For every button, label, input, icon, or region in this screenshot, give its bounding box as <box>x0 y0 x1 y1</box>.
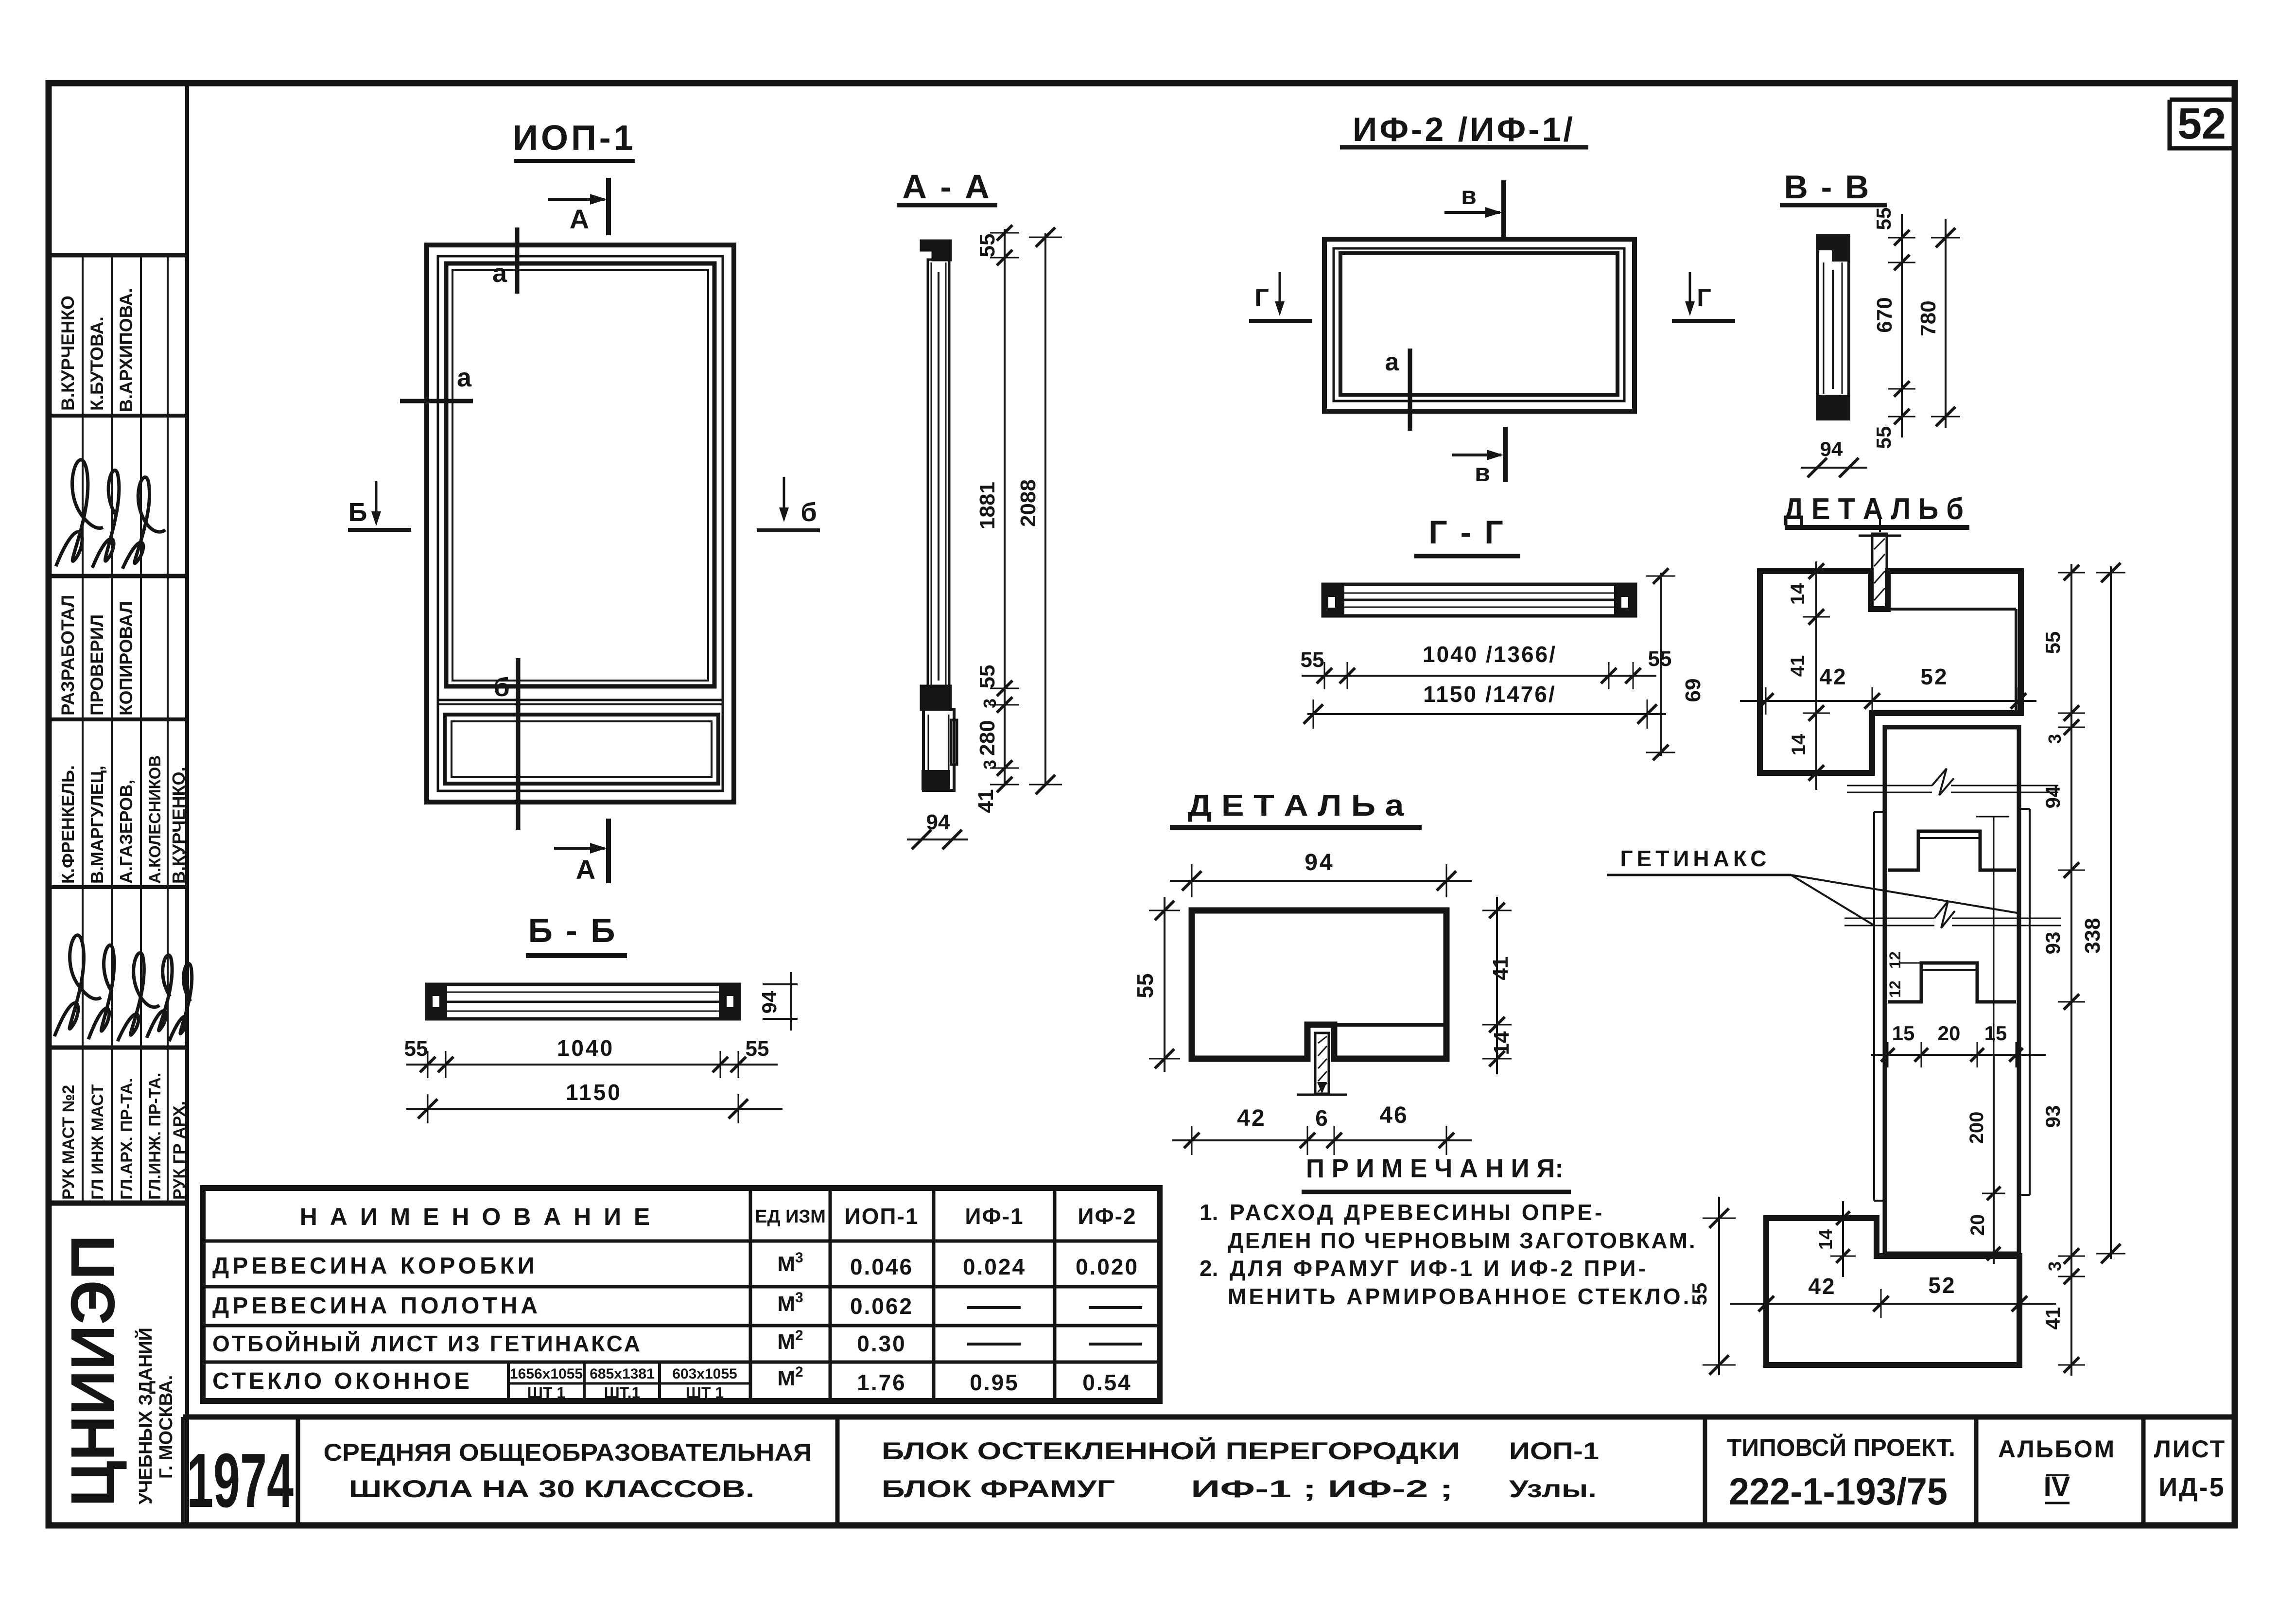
svg-text:14: 14 <box>1787 583 1809 605</box>
svg-text:ШТ 1: ШТ 1 <box>686 1384 724 1401</box>
detail b glazing bead lower <box>1888 963 2016 1002</box>
svg-text:ДЛЯ ФРАМУГ ИФ-1 И ИФ-2 ПРИ-: ДЛЯ ФРАМУГ ИФ-1 И ИФ-2 ПРИ- <box>1230 1256 1648 1281</box>
svg-text:ИФ-1 ; ИФ-2 ;: ИФ-1 ; ИФ-2 ; <box>1191 1475 1453 1503</box>
svg-text:94: 94 <box>1820 437 1843 460</box>
detail b glazing bead upper <box>1888 831 2016 870</box>
detail b break line upper <box>1847 785 1932 787</box>
A-A dim chain left <box>1004 229 1006 785</box>
svg-text:55: 55 <box>975 234 999 258</box>
svg-text:ПРОВЕРИЛ: ПРОВЕРИЛ <box>87 614 107 716</box>
svg-text:52: 52 <box>2177 100 2226 148</box>
svg-text:ЕД ИЗМ: ЕД ИЗМ <box>755 1206 826 1227</box>
detail a dims 42 6 46 <box>1172 1139 1472 1141</box>
IOP-1 glazing bead inner line <box>452 270 708 681</box>
svg-text:Г - Г: Г - Г <box>1428 514 1505 551</box>
IOP-1 detail mark a top <box>515 227 520 294</box>
svg-text:55: 55 <box>1872 426 1895 449</box>
svg-text:В - В: В - В <box>1784 169 1871 206</box>
svg-text:ИОП-1: ИОП-1 <box>845 1204 919 1229</box>
svg-text:Б: Б <box>348 498 367 527</box>
svg-text:ИФ-2: ИФ-2 <box>1078 1204 1136 1229</box>
svg-text:0.95: 0.95 <box>970 1370 1019 1395</box>
svg-text:280: 280 <box>975 720 999 755</box>
svg-text:б: б <box>800 498 817 527</box>
svg-text:А: А <box>570 204 589 234</box>
detail a body <box>1192 910 1446 1059</box>
svg-text:ИОП-1: ИОП-1 <box>1509 1437 1599 1465</box>
V-V dim chain 780 <box>1945 219 1947 428</box>
svg-text:55: 55 <box>1132 973 1158 998</box>
svg-text:б: б <box>493 673 509 702</box>
svg-text:ДЕЛЕН ПО ЧЕРНОВЫМ ЗАГОТОВКАМ: ДЕЛЕН ПО ЧЕРНОВЫМ ЗАГОТОВКАМ. <box>1228 1228 1697 1253</box>
svg-text:69: 69 <box>1681 679 1705 702</box>
IOP-1 bottom panel <box>445 715 718 784</box>
svg-text:1974: 1974 <box>187 1438 294 1523</box>
svg-text:К.БУТОВА.: К.БУТОВА. <box>87 316 107 411</box>
svg-text:55: 55 <box>1872 208 1895 230</box>
svg-text:Н А И М Е Н О В А Н И Е: Н А И М Е Н О В А Н И Е <box>300 1203 653 1230</box>
V-V frame bar <box>1817 235 1849 419</box>
detail b dim 14 bottom <box>1842 1201 1844 1277</box>
svg-text:3: 3 <box>980 760 1000 769</box>
detail b getinaks strip left <box>1873 812 1875 1201</box>
svg-text:20: 20 <box>1967 1214 1988 1236</box>
svg-text:55: 55 <box>2041 631 2064 654</box>
svg-text:В.КУРЧЕНКО.: В.КУРЧЕНКО. <box>169 767 189 884</box>
svg-text:ШТ 1: ШТ 1 <box>527 1384 565 1401</box>
svg-text:ДРЕВЕСИНА КОРОБКИ: ДРЕВЕСИНА КОРОБКИ <box>212 1253 538 1279</box>
svg-text:55: 55 <box>404 1037 428 1061</box>
detail b dims 15 20 15 <box>1871 1054 2046 1056</box>
svg-text:55: 55 <box>1688 1283 1711 1306</box>
svg-text:222-1-193/75: 222-1-193/75 <box>1729 1470 1948 1513</box>
svg-text:15: 15 <box>1984 1022 2007 1045</box>
svg-text:В.КУРЧЕНКО: В.КУРЧЕНКО <box>58 296 78 411</box>
svg-text:ТИПОВСЙ ПРОЕКТ.: ТИПОВСЙ ПРОЕКТ. <box>1727 1433 1955 1461</box>
svg-text:1881: 1881 <box>975 482 999 529</box>
detail b break line lower <box>1844 918 1934 919</box>
IF-2 detail mark a <box>1408 349 1412 431</box>
svg-text:МЕНИТЬ АРМИРОВАННОЕ СТЕКЛО.: МЕНИТЬ АРМИРОВАННОЕ СТЕКЛО. <box>1228 1284 1691 1309</box>
IF-2 frame inner line <box>1340 253 1618 395</box>
svg-text:2.: 2. <box>1200 1256 1218 1281</box>
svg-text:Д Е Т А Л Ь а: Д Е Т А Л Ь а <box>1188 789 1405 822</box>
svg-text:42: 42 <box>1237 1105 1266 1131</box>
title bar grid <box>183 1415 2235 1420</box>
svg-text:РАЗРАБОТАЛ: РАЗРАБОТАЛ <box>58 595 78 716</box>
A-A plinth strip <box>951 720 957 765</box>
svg-text:3: 3 <box>980 699 1000 708</box>
IOP-1 door frame outer <box>427 245 734 802</box>
A-A dim chain overall 2088 <box>1044 233 1046 785</box>
svg-text:ОТБОЙНЫЙ ЛИСТ ИЗ ГЕТИНАКСА: ОТБОЙНЫЙ ЛИСТ ИЗ ГЕТИНАКСА <box>212 1331 642 1356</box>
detail b dims 200 20 <box>1993 1055 1995 1264</box>
svg-text:П Р И М Е Ч А Н И Я:: П Р И М Е Ч А Н И Я: <box>1306 1154 1564 1183</box>
A-A top frame block <box>922 241 950 260</box>
svg-text:СТЕКЛО ОКОННОЕ: СТЕКЛО ОКОННОЕ <box>212 1368 472 1394</box>
detail b dims 42 52 top <box>1740 700 2036 702</box>
svg-text:Г: Г <box>1697 284 1711 312</box>
svg-text:55: 55 <box>975 665 999 689</box>
svg-text:К.ФРЕНКЕЛЬ.: К.ФРЕНКЕЛЬ. <box>58 765 78 884</box>
IOP-1 section mark A bottom <box>606 819 611 883</box>
svg-text:200: 200 <box>1966 1112 1987 1144</box>
svg-text:20: 20 <box>1938 1022 1961 1045</box>
svg-text:55: 55 <box>1301 648 1324 672</box>
svg-text:685x1381: 685x1381 <box>590 1366 654 1382</box>
detail b bottom block <box>1766 1218 2019 1365</box>
G-G dim 1150/1476 <box>1307 713 1666 715</box>
A-A glass line <box>938 272 939 681</box>
svg-text:1150: 1150 <box>566 1080 622 1105</box>
svg-text:а: а <box>457 363 472 392</box>
B-B dim 94 <box>763 983 798 985</box>
B-B head bar <box>427 984 739 1019</box>
svg-text:603x1055: 603x1055 <box>672 1366 737 1382</box>
svg-text:1656x1055: 1656x1055 <box>510 1366 583 1382</box>
svg-text:0.046: 0.046 <box>850 1254 913 1279</box>
svg-text:14: 14 <box>1816 1229 1836 1250</box>
svg-text:46: 46 <box>1379 1102 1408 1128</box>
svg-text:ШКОЛА НА 30 КЛАССОВ.: ШКОЛА НА 30 КЛАССОВ. <box>349 1475 755 1503</box>
svg-text:в: в <box>1461 182 1477 210</box>
svg-text:52: 52 <box>1920 664 1948 689</box>
svg-text:РАСХОД ДРЕВЕСИНЫ ОПРЕ-: РАСХОД ДРЕВЕСИНЫ ОПРЕ- <box>1230 1200 1604 1225</box>
B-B dim 1040 <box>406 1064 778 1066</box>
stamp signatures row 2 <box>54 935 101 1036</box>
detail a getinaks bar <box>1315 1033 1329 1094</box>
svg-text:ГЛ.АРХ. ПР-ТА.: ГЛ.АРХ. ПР-ТА. <box>118 1078 136 1200</box>
G-G dim 1040/1366 <box>1302 675 1656 677</box>
IOP-1 glazed panel <box>446 263 714 686</box>
svg-text:ИД-5: ИД-5 <box>2158 1473 2225 1502</box>
svg-text:а: а <box>492 259 507 288</box>
detail a dim 94 <box>1170 880 1472 882</box>
svg-text:ДРЕВЕСИНА ПОЛОТНА: ДРЕВЕСИНА ПОЛОТНА <box>212 1293 541 1319</box>
svg-text:АЛЬБОМ: АЛЬБОМ <box>1998 1435 2116 1463</box>
svg-text:14: 14 <box>1490 1031 1513 1055</box>
svg-text:0.020: 0.020 <box>1076 1254 1139 1279</box>
svg-text:Г. МОСКВА.: Г. МОСКВА. <box>156 1375 176 1479</box>
page number box 52 <box>2170 100 2235 148</box>
A-A bottom panel part <box>923 709 954 790</box>
detail b right dim chain <box>2070 564 2072 1376</box>
G-G head bar <box>1323 584 1635 616</box>
detail b dim 200 extension <box>1993 817 1995 1055</box>
IOP-1 detail mark a left <box>400 399 473 403</box>
svg-text:12: 12 <box>1886 980 1904 998</box>
svg-text:ЛИСТ: ЛИСТ <box>2154 1435 2226 1463</box>
IOP-1 section mark A top <box>606 178 611 235</box>
svg-text:в: в <box>1475 459 1490 487</box>
svg-text:42: 42 <box>1808 1274 1836 1299</box>
detail b dim 55 bottom block <box>1718 1197 1720 1375</box>
svg-text:94: 94 <box>758 991 781 1014</box>
B-B dim 1150 <box>406 1108 783 1110</box>
materials table <box>203 1188 1160 1401</box>
svg-text:А.КОЛЕСНИКОВ: А.КОЛЕСНИКОВ <box>146 755 164 884</box>
svg-text:Д Е Т А Л Ь б: Д Е Т А Л Ь б <box>1784 492 1964 526</box>
svg-text:Узлы.: Узлы. <box>1509 1475 1597 1503</box>
svg-text:КОПИРОВАЛ: КОПИРОВАЛ <box>116 601 136 716</box>
svg-text:6: 6 <box>1315 1105 1328 1131</box>
svg-text:ШТ.1: ШТ.1 <box>604 1384 641 1401</box>
svg-text:А: А <box>576 854 595 885</box>
svg-text:БЛОК ФРАМУГ: БЛОК ФРАМУГ <box>882 1475 1115 1503</box>
svg-text:ИФ-2 /ИФ-1/: ИФ-2 /ИФ-1/ <box>1353 110 1575 148</box>
svg-text:СРЕДНЯЯ ОБЩЕОБРАЗОВАТЕЛЬНАЯ: СРЕДНЯЯ ОБЩЕОБРАЗОВАТЕЛЬНАЯ <box>324 1439 812 1466</box>
IF-2 frame outer <box>1324 239 1635 411</box>
svg-text:41: 41 <box>1489 957 1513 980</box>
svg-text:15: 15 <box>1892 1022 1915 1045</box>
svg-text:14: 14 <box>1788 734 1809 755</box>
V-V top block <box>1817 235 1849 260</box>
IOP-1 mid rail lines <box>438 699 723 701</box>
svg-text:780: 780 <box>1916 300 1940 336</box>
svg-text:ЦНИИЭП: ЦНИИЭП <box>58 1235 128 1507</box>
detail b dims 14 41 14 left <box>1815 561 1817 790</box>
svg-text:93: 93 <box>2041 932 2064 955</box>
IOP-1 door frame inner line <box>438 256 723 791</box>
svg-text:55: 55 <box>746 1037 769 1061</box>
svg-text:0.54: 0.54 <box>1082 1370 1132 1395</box>
detail b getinaks strip right <box>2029 809 2031 1195</box>
svg-text:1.: 1. <box>1200 1200 1218 1225</box>
svg-text:93: 93 <box>2041 1105 2064 1128</box>
svg-text:0.062: 0.062 <box>850 1293 913 1319</box>
svg-text:1040 /1366/: 1040 /1366/ <box>1423 642 1557 667</box>
svg-text:ГЕТИНАКС: ГЕТИНАКС <box>1620 846 1770 871</box>
detail b overall dim 338 <box>2110 566 2112 1259</box>
G-G head bar lines <box>1344 593 1614 594</box>
svg-text:А.ГАЗЕРОВ,: А.ГАЗЕРОВ, <box>116 780 136 884</box>
detail b middle member <box>1885 727 2019 1254</box>
svg-text:а: а <box>1385 348 1400 376</box>
IOP-1 cut mark b bottom <box>516 658 521 830</box>
V-V dim chain 670 <box>1901 214 1903 437</box>
svg-text:ГЛ ИНЖ МАСТ: ГЛ ИНЖ МАСТ <box>88 1084 107 1200</box>
svg-text:42: 42 <box>1819 664 1847 689</box>
detail a dim 55 <box>1164 897 1165 1072</box>
IF-2 frame middle line <box>1334 248 1624 401</box>
A-A bottom block <box>922 770 950 790</box>
svg-text:670: 670 <box>1873 297 1896 332</box>
IF-2 section mark V top <box>1501 180 1506 238</box>
svg-text:ГЛ.ИНЖ. ПР-ТА.: ГЛ.ИНЖ. ПР-ТА. <box>146 1073 164 1200</box>
G-G notch details <box>1327 596 1336 609</box>
stamp column grid <box>185 83 189 1525</box>
svg-text:Г: Г <box>1254 284 1269 312</box>
svg-text:БЛОК ОСТЕКЛЕННОЙ ПЕРЕГОРОДКИ: БЛОК ОСТЕКЛЕННОЙ ПЕРЕГОРОДКИ <box>882 1437 1460 1465</box>
svg-text:41: 41 <box>2041 1307 2064 1330</box>
detail b dims 42 52 bottom <box>1730 1303 2056 1305</box>
svg-text:3: 3 <box>2045 734 2065 744</box>
V-V bottom block <box>1817 396 1849 419</box>
svg-text:94: 94 <box>1305 850 1334 875</box>
svg-text:94: 94 <box>2041 786 2064 808</box>
svg-text:В.МАРГУЛЕЦ,: В.МАРГУЛЕЦ, <box>87 766 107 884</box>
svg-text:3: 3 <box>2045 1261 2065 1271</box>
A-A vertical stile <box>928 260 949 688</box>
svg-text:0.30: 0.30 <box>857 1331 906 1356</box>
svg-text:12: 12 <box>1886 951 1904 969</box>
detail b top block <box>1760 571 2021 773</box>
stamp signatures row 1 <box>56 460 103 566</box>
svg-text:1040: 1040 <box>557 1035 614 1061</box>
svg-text:Б - Б: Б - Б <box>528 911 617 949</box>
G-G dim 69 <box>1660 573 1662 756</box>
IOP-1 bottom panel inner line <box>452 721 712 777</box>
svg-text:1.76: 1.76 <box>857 1370 906 1395</box>
A-A mid rail block <box>922 686 950 709</box>
detail a dims 41 14 <box>1496 897 1498 1074</box>
svg-text:41: 41 <box>1787 655 1809 677</box>
detail b getinaks bar top <box>1872 534 1887 609</box>
svg-text:1150 /1476/: 1150 /1476/ <box>1423 682 1556 707</box>
svg-text:УЧЕБНЫХ ЗДАНИЙ: УЧЕБНЫХ ЗДАНИЙ <box>134 1328 156 1504</box>
svg-text:0.024: 0.024 <box>963 1254 1026 1279</box>
svg-text:В.АРХИПОВА.: В.АРХИПОВА. <box>116 288 136 412</box>
svg-text:338: 338 <box>2081 918 2105 953</box>
svg-text:А - А: А - А <box>902 168 991 206</box>
svg-text:ИФ-1: ИФ-1 <box>965 1204 1024 1229</box>
svg-text:РУК МАСТ №2: РУК МАСТ №2 <box>59 1085 78 1200</box>
svg-text:52: 52 <box>1928 1273 1956 1298</box>
svg-text:41: 41 <box>974 789 998 813</box>
IF-2 section mark V bottom <box>1503 427 1508 482</box>
svg-text:ИОП-1: ИОП-1 <box>513 119 636 157</box>
svg-text:2088: 2088 <box>1016 479 1040 527</box>
detail a rebate line <box>1334 1023 1446 1027</box>
svg-text:РУК ГР АРХ.: РУК ГР АРХ. <box>170 1101 189 1200</box>
